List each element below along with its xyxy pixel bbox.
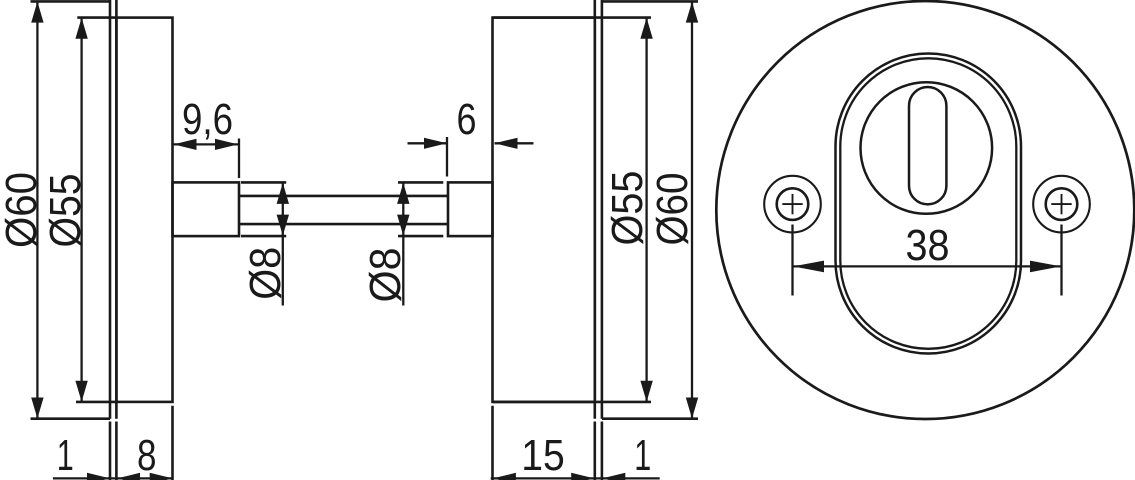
svg-text:15: 15 bbox=[521, 431, 565, 480]
svg-text:Ø55: Ø55 bbox=[603, 171, 652, 246]
svg-text:Ø60: Ø60 bbox=[648, 173, 697, 246]
svg-text:Ø8: Ø8 bbox=[241, 247, 290, 300]
svg-text:38: 38 bbox=[906, 221, 950, 270]
svg-text:Ø60: Ø60 bbox=[0, 172, 46, 248]
svg-text:8: 8 bbox=[137, 431, 157, 480]
svg-text:1: 1 bbox=[57, 431, 74, 480]
svg-text:9,6: 9,6 bbox=[182, 95, 233, 144]
svg-text:Ø8: Ø8 bbox=[361, 248, 410, 303]
svg-text:Ø55: Ø55 bbox=[41, 174, 90, 248]
svg-text:6: 6 bbox=[457, 95, 477, 144]
svg-text:1: 1 bbox=[634, 431, 651, 480]
